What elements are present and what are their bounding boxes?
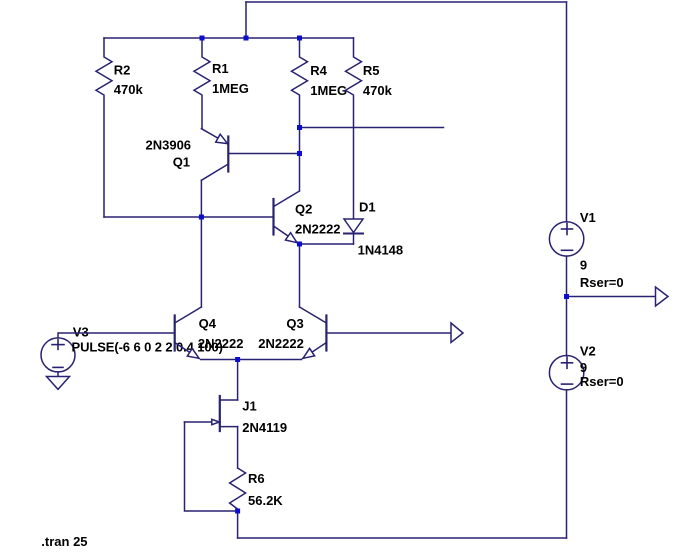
svg-text:R4: R4: [310, 63, 327, 78]
wire supply bus: [104, 37, 354, 39]
svg-text:2N3906: 2N3906: [146, 138, 192, 153]
svg-text:1MEG: 1MEG: [310, 83, 347, 98]
svg-text:2N2222: 2N2222: [295, 222, 341, 237]
resistor R5: [346, 38, 393, 219]
ground below V3: [47, 372, 70, 390]
wire V1 to V2: [566, 256, 568, 356]
svg-text:Q1: Q1: [173, 155, 190, 170]
node dot at R6 bottom: [235, 509, 240, 514]
transistor Q1 (PNP 2N3906): [146, 129, 229, 181]
svg-text:D1: D1: [359, 200, 376, 215]
node dot at stub y=127.5: [297, 125, 302, 130]
output port arrow (Q3 base): [451, 323, 463, 343]
wire emitter bus down to J1 drain: [237, 360, 239, 401]
wire J1 source to R6: [237, 427, 239, 468]
svg-text:J1: J1: [242, 399, 256, 414]
transistor Q4 (NPN 2N2222): [175, 307, 244, 359]
resistor R6: [230, 468, 284, 538]
svg-text:R1: R1: [212, 61, 229, 76]
wire right rail top (to V1): [566, 2, 568, 222]
wire V2 to bottom rail: [566, 390, 568, 538]
wire Q1 base to node: [228, 153, 299, 155]
voltage source V3: [41, 325, 223, 372]
svg-text:470k: 470k: [363, 83, 393, 98]
node dot at V1-V2 output node: [564, 294, 569, 299]
svg-text:1MEG: 1MEG: [212, 81, 249, 96]
svg-text:2N4119: 2N4119: [242, 420, 287, 435]
svg-text:V1: V1: [580, 210, 596, 225]
diode D1 (1N4148): [344, 200, 403, 258]
svg-text:2N2222: 2N2222: [258, 336, 304, 351]
transistor Q3 (NPN 2N2222, mirrored): [258, 307, 326, 359]
svg-text:.tran 25: .tran 25: [41, 534, 87, 549]
JFET J1 (2N4119): [185, 396, 288, 435]
output port arrow (right): [656, 287, 669, 306]
wire Q2 emitter down to Q3 collector: [299, 244, 301, 307]
wire emitter bus: [201, 359, 302, 361]
resistor R1: [194, 38, 249, 129]
node dot at emitter bus: [235, 357, 240, 362]
voltage source V1: [549, 210, 623, 290]
svg-text:R5: R5: [363, 63, 380, 78]
svg-text:9: 9: [580, 360, 587, 375]
node dot at Q1 base node: [297, 151, 302, 156]
svg-text:Rser=0: Rser=0: [580, 275, 624, 290]
svg-text:56.2K: 56.2K: [248, 493, 283, 508]
svg-text:Q2: Q2: [295, 202, 312, 217]
svg-text:V3: V3: [73, 325, 89, 340]
svg-text:R2: R2: [114, 63, 131, 78]
svg-text:Rser=0: Rser=0: [580, 374, 624, 389]
wire left rail to Q2 base (y=217): [104, 216, 274, 218]
wire Q1 collector / Q4 collector column: [200, 180, 202, 307]
wire V3 to Q4 base: [58, 333, 175, 338]
wire top rail: [246, 1, 567, 3]
resistor R4: [292, 38, 348, 191]
svg-text:9: 9: [580, 258, 587, 273]
wire bottom rail: [238, 537, 567, 539]
transistor Q2 (NPN 2N2222): [274, 191, 341, 243]
svg-text:2N2222: 2N2222: [198, 336, 244, 351]
svg-text:Q4: Q4: [199, 316, 217, 331]
node dot at Q2 emitter node: [297, 242, 302, 247]
wire gate feedback loop: [185, 422, 238, 511]
svg-text:R6: R6: [248, 471, 265, 486]
resistor R2: [96, 38, 143, 217]
node dot at Q1 collector node: [199, 215, 204, 220]
svg-text:V2: V2: [580, 344, 596, 359]
voltage source V2: [549, 344, 623, 390]
node dot at R1 top: [200, 36, 205, 41]
wire Q2 emitter to D1: [300, 243, 354, 245]
node dot at R4 top: [297, 36, 302, 41]
wire top drop to bus: [245, 2, 247, 38]
wire output node to arrow: [567, 296, 656, 298]
svg-text:1N4148: 1N4148: [358, 243, 404, 258]
svg-text:Q3: Q3: [286, 316, 303, 331]
svg-text:470k: 470k: [114, 82, 144, 97]
node dot at top drop: [244, 36, 249, 41]
wire Q3 base to output arrow: [326, 332, 451, 334]
wire stub node at y=127.5: [300, 127, 444, 129]
